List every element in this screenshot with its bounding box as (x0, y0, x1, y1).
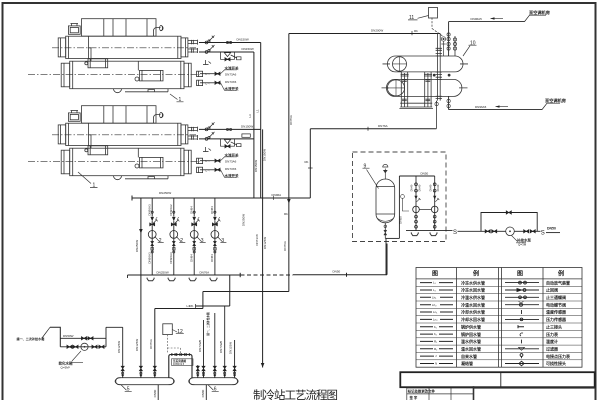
softened water pump (81, 343, 88, 350)
chiller unit 2 (copy shifted down) (28, 106, 203, 180)
svg-text:5: 5 (127, 387, 130, 393)
pump P1 label 2 (155, 237, 164, 243)
arrow on riser x141 (139, 229, 143, 234)
svg-text:N: N (435, 362, 437, 366)
drop D6e (234, 340, 236, 378)
bypass valve (506, 211, 511, 214)
bypass valves (172, 353, 190, 356)
svg-text:DN50: DN50 (421, 172, 429, 176)
svg-text:DN76A: DN76A (378, 124, 388, 128)
collector 6 bottom stub (205, 385, 207, 400)
label 5 (121, 385, 132, 393)
svg-text:DN73X8: DN73X8 (255, 234, 259, 246)
legend right texts (546, 279, 570, 366)
wire riser x310 (309, 129, 311, 198)
valve+thermometer CH1 pipe B (205, 45, 241, 60)
pump P4 (211, 198, 221, 275)
svg-text:DN50: DN50 (547, 226, 556, 230)
svg-text:冷冻水回水管: 冷冻水回水管 (461, 287, 485, 293)
border frame top (2, 2, 596, 4)
makeup pump column B (431, 176, 439, 231)
drop D6c with riser label (214, 313, 216, 378)
svg-text:止三接头: 止三接头 (546, 323, 562, 329)
chiller unit 1 (28, 19, 203, 93)
svg-text:止三通蝶阀: 止三通蝶阀 (546, 294, 566, 300)
drop D6a (197, 365, 199, 378)
svg-text:L₁: L₁ (433, 281, 436, 285)
wire y291 run (203, 291, 289, 293)
svg-text:DN250W: DN250W (242, 214, 246, 226)
legend left texts (460, 279, 485, 366)
svg-text:冷却水回水管: 冷却水回水管 (461, 316, 485, 322)
svg-text:DN73X6: DN73X6 (225, 80, 237, 84)
valve MU2 (492, 230, 497, 233)
svg-text:DN150W: DN150W (263, 149, 267, 161)
cross link between makeup pumps (419, 208, 431, 210)
svg-text:冷温水供水管: 冷温水供水管 (461, 294, 485, 300)
svg-text:至空调机房: 至空调机房 (529, 9, 550, 16)
svg-text:L1: L1 (255, 109, 259, 113)
differential bypass label box (172, 359, 194, 366)
svg-text:例: 例 (473, 270, 479, 278)
svg-text:2: 2 (180, 238, 183, 244)
valve+thermometer CH2 pipe B (205, 132, 250, 147)
svg-text:L→: L→ (206, 168, 211, 172)
svg-text:DN84: DN84 (210, 206, 214, 214)
svg-text:1: 1 (179, 97, 182, 103)
drop D6d (224, 306, 226, 378)
wire chilled return from HX (310, 128, 436, 130)
pressure控制 box 12 (163, 324, 184, 335)
internal pipe drop left (89, 36, 92, 61)
oil cooler cylinder A (88, 59, 108, 68)
wire right riser join (106, 327, 123, 347)
svg-text:DN96A3: DN96A3 (147, 252, 151, 264)
wire tank drain jog (385, 237, 399, 239)
HX lower riser to return flag (448, 96, 450, 109)
svg-text:3: 3 (221, 238, 224, 244)
svg-text:自动放气装置: 自动放气装置 (546, 279, 570, 285)
svg-text:水流开关: 水流开关 (224, 173, 239, 178)
drop D5a (122, 327, 124, 377)
bottom drain bulge (114, 89, 122, 93)
wire riser x141 to collector (140, 198, 142, 378)
svg-text:电动蝶节阀: 电动蝶节阀 (546, 301, 566, 307)
label 6 (208, 385, 219, 393)
svg-text:DN76A: DN76A (200, 270, 210, 274)
wire long riser x289 (288, 34, 290, 292)
expansion tank 9 (376, 179, 395, 223)
svg-text:DN40: DN40 (410, 184, 414, 191)
svg-text:6: 6 (214, 387, 217, 393)
wire suction header solid (128, 274, 241, 276)
CH1 evaporator outlet stub D (200, 81, 215, 85)
svg-text:温水回水管: 温水回水管 (461, 346, 481, 352)
svg-text:Ln₁: Ln₁ (433, 310, 437, 314)
svg-text:Rb: Rb (414, 29, 418, 33)
svg-text:例: 例 (558, 270, 564, 278)
CH1 evaporator outlet stub C (200, 72, 215, 76)
svg-text:接一、二次补给水箱: 接一、二次补给水箱 (206, 312, 210, 337)
wire long riser to collector 6 (262, 129, 264, 367)
dashed control lines from box 12 (168, 335, 181, 355)
control box 11 (408, 8, 438, 22)
valve MU3 (524, 230, 529, 233)
svg-text:图: 图 (432, 270, 438, 278)
valve on bypass CH1 (225, 58, 230, 61)
svg-text:DN76A: DN76A (149, 339, 153, 349)
wire tank feed riser (386, 244, 388, 275)
flexible joint U1 (147, 278, 154, 281)
wire CH1 condenser supply pipe (199, 42, 261, 44)
condenser left cap (58, 38, 65, 57)
drop D6b (203, 320, 205, 378)
wire drop x203 (202, 292, 204, 309)
svg-text:制冷站工艺流程图: 制冷站工艺流程图 (253, 388, 337, 400)
svg-text:DN84: DN84 (210, 254, 214, 262)
water collector 6 (189, 378, 239, 385)
svg-text:DN96A2: DN96A2 (169, 204, 173, 216)
svg-text:DN50X2.5: DN50X2.5 (173, 363, 185, 366)
border frame left (2, 2, 4, 400)
valve MU1 (485, 230, 490, 233)
right condenser nozzles (188, 40, 198, 45)
label 软化水箱 (71, 351, 83, 362)
svg-text:DN84: DN84 (189, 254, 193, 262)
svg-text:L→: L→ (206, 81, 211, 85)
HX lower shell (386, 79, 462, 96)
pump P2 label 2 (176, 237, 185, 243)
svg-text:自来水管: 自来水管 (461, 353, 477, 359)
condenser right cap (181, 38, 188, 57)
supply destination flag (449, 15, 546, 21)
svg-text:DN50W: DN50W (63, 334, 74, 338)
wire softened water lower branch (60, 346, 106, 348)
svg-text:L→: L→ (206, 159, 211, 163)
HX upper shell (387, 56, 463, 72)
svg-text:DN125W: DN125W (117, 341, 121, 353)
svg-text:DN40: DN40 (428, 184, 432, 191)
motorized valve on HX riser (441, 37, 445, 56)
svg-text:DN150W: DN150W (241, 124, 253, 128)
flow switch valve C2 (215, 159, 220, 162)
HX center bottom drop (435, 101, 437, 129)
valve+thermometer CH1 pipe A (205, 36, 232, 44)
svg-text:1: 1 (93, 183, 96, 189)
wire tank feed run (293, 274, 387, 276)
wire cooling water supply header to HX (289, 33, 440, 35)
makeup pump column A (413, 176, 421, 231)
vent bracket CH2 (203, 147, 211, 152)
wire CH1 condenser return pipe (199, 51, 254, 53)
valve MU4 (530, 230, 535, 233)
svg-text:R₁: R₁ (434, 340, 437, 344)
svg-text:冷温水回水管: 冷温水回水管 (461, 301, 485, 307)
svg-text:DN73W8: DN73W8 (219, 341, 223, 354)
svg-text:冷冻水供水管: 冷冻水供水管 (461, 279, 485, 285)
label 9 with leader (363, 163, 379, 188)
dashed control line from box 11 (432, 18, 443, 37)
chiller 1 ref label 1 (170, 94, 184, 103)
tank bottom fittings (384, 223, 387, 239)
svg-text:DN80: DN80 (201, 389, 205, 397)
svg-text:DN73W8: DN73W8 (198, 340, 202, 353)
valve SW1 (81, 337, 86, 340)
svg-text:水流开关: 水流开关 (224, 152, 239, 157)
legend line letter tags (431, 281, 440, 366)
svg-text:水流开关: 水流开关 (224, 86, 239, 91)
wire CH1 cond supply riser down (260, 43, 262, 199)
svg-text:温度计: 温度计 (546, 338, 558, 344)
svg-text:DN150W: DN150W (242, 47, 254, 51)
distributor 5 bottom stub (157, 385, 159, 400)
wire makeup top header (399, 175, 434, 177)
legend left line samples (420, 283, 453, 364)
label 补给水泵 (512, 236, 527, 243)
valve SW3 (67, 345, 72, 348)
wire header left end down (127, 275, 129, 278)
bottom piping (125, 89, 168, 92)
svg-text:锅炉回水管: 锅炉回水管 (460, 331, 481, 337)
svg-text:DN125W: DN125W (228, 342, 232, 354)
svg-text:DN96A: DN96A (272, 193, 282, 197)
flow switch valve D2 (215, 168, 220, 171)
svg-text:DN50: DN50 (399, 216, 403, 224)
svg-text:Q=5M³: Q=5M³ (61, 365, 70, 369)
flexible joint under pump A (411, 232, 418, 235)
border frame right (595, 2, 597, 400)
svg-text:DN150W: DN150W (237, 38, 249, 42)
svg-text:接一、二次补给水箱: 接一、二次补给水箱 (17, 336, 45, 341)
arrow bottom of riser x263 (261, 363, 265, 368)
drop D5c valves (153, 366, 156, 377)
pump P1 (148, 198, 158, 275)
svg-text:b₁: b₁ (434, 325, 437, 329)
wire drop x230 (229, 275, 231, 306)
pump P4 label 3 (217, 237, 226, 243)
svg-text:温水供水管: 温水供水管 (461, 338, 481, 344)
valve SW2 (88, 337, 93, 340)
svg-text:DN250W: DN250W (159, 191, 171, 195)
pressure gauge (401, 195, 409, 211)
svg-text:DN73A6: DN73A6 (225, 72, 237, 76)
svg-text:标记处数更改文件: 标记处数更改文件 (407, 389, 436, 394)
HX support legs (401, 72, 431, 107)
svg-text:止回阀: 止回阀 (546, 287, 558, 293)
svg-text:图: 图 (517, 270, 523, 278)
svg-text:DN250W: DN250W (157, 270, 169, 274)
short riser 455 (454, 36, 456, 56)
pump P3 (190, 198, 200, 275)
vent bracket CH1 (203, 60, 211, 65)
pump P3 label 3 (197, 237, 206, 243)
revision table (407, 386, 595, 400)
wire CH2 condenser supply pipe (199, 128, 261, 130)
wire riser x399 (398, 176, 400, 238)
svg-text:DN40: DN40 (418, 184, 422, 191)
bypass pipe between collectors (169, 355, 192, 378)
wire pump discharge header (132, 197, 310, 199)
chiller 2 ref label 1 (78, 172, 98, 189)
makeup feed pump (506, 227, 515, 236)
valve SW5 (92, 345, 97, 348)
vent box top-left (68, 26, 80, 34)
wire makeup bottom header (406, 230, 453, 232)
svg-text:DN40: DN40 (436, 184, 440, 191)
water distributor 5 (115, 378, 174, 385)
title block band (400, 372, 594, 387)
valve SW4 (73, 345, 78, 348)
label 10 with leader (463, 40, 477, 56)
gate valves on riser 448 (447, 33, 450, 50)
flow switch valve C (215, 72, 220, 75)
svg-text:DN200W: DN200W (371, 29, 383, 33)
valve on bypass CH2 (225, 145, 230, 148)
evaporator left cap (61, 63, 69, 87)
arrow on long riser x289 (287, 199, 291, 204)
svg-text:10: 10 (470, 40, 476, 46)
wire drop x155 to collector (154, 309, 156, 378)
wire L4 run (155, 308, 203, 310)
return destination flag (449, 103, 560, 109)
svg-text:DN96A5: DN96A5 (471, 17, 483, 21)
leader from text (42, 327, 50, 338)
svg-text:2: 2 (159, 238, 162, 244)
svg-text:Lh₁: Lh₁ (432, 295, 436, 299)
flexible joint U2 (168, 278, 175, 281)
svg-text:L→: L→ (206, 72, 211, 76)
svg-text:签 字: 签 字 (409, 395, 418, 400)
svg-text:DN150W: DN150W (254, 160, 258, 172)
flexible joint under pump B (430, 232, 437, 235)
svg-text:水流开关: 水流开关 (224, 65, 239, 70)
evaporator centerline (28, 73, 200, 75)
svg-text:S: S (541, 230, 545, 236)
drop D5b valves (139, 366, 142, 377)
legend right symbols (505, 281, 539, 366)
svg-text:DN84: DN84 (189, 206, 193, 214)
svg-text:至空调机房: 至空调机房 (545, 97, 566, 104)
svg-text:S: S (453, 230, 457, 236)
svg-text:电接点压力表: 电接点压力表 (546, 353, 570, 359)
svg-text:DN96A3: DN96A3 (169, 252, 173, 264)
svg-text:DN76A: DN76A (289, 115, 293, 125)
flexible joint U3 (189, 278, 196, 281)
svg-text:凝结管: 凝结管 (461, 360, 473, 366)
heat exchanger unit 10 (382, 34, 469, 129)
flexible joint U4 (210, 278, 217, 281)
svg-text:可挠性接头: 可挠性接头 (546, 360, 566, 366)
bypass loop over feed pump (481, 213, 537, 232)
svg-text:DN250W: DN250W (135, 240, 139, 252)
evaporator shell (70, 61, 184, 88)
svg-text:锅炉供水管: 锅炉供水管 (460, 323, 481, 329)
svg-text:12: 12 (177, 329, 183, 335)
svg-text:DN125W: DN125W (263, 237, 267, 249)
wire softened water upper branch (60, 337, 106, 339)
svg-text:3: 3 (201, 238, 204, 244)
right evaporator nozzles (197, 71, 203, 76)
svg-text:DN73X6: DN73X6 (225, 167, 237, 171)
dashed enclosure (makeup water unit) (353, 152, 447, 242)
svg-text:温度传感器: 温度传感器 (546, 309, 567, 315)
wire makeup line to city (458, 230, 486, 232)
svg-text:DN96A5: DN96A5 (475, 105, 487, 109)
pump P2 (170, 198, 180, 275)
elbow right (154, 26, 164, 37)
flow switch valve D (215, 81, 220, 84)
svg-text:DN96A3: DN96A3 (147, 204, 151, 216)
svg-text:DN76A: DN76A (283, 241, 287, 251)
compressor box (82, 19, 157, 37)
label 水流开关 C (221, 70, 238, 74)
svg-text:DN50: DN50 (333, 269, 341, 273)
svg-text:Rb: Rb (305, 160, 309, 164)
wire CH1 cond return riser down (253, 52, 255, 198)
CH2 evaporator outlet stub C (200, 159, 215, 163)
svg-text:DN80: DN80 (153, 389, 157, 397)
svg-text:压力传感器: 压力传感器 (546, 316, 567, 322)
svg-text:L3: L3 (248, 114, 252, 118)
svg-text:11: 11 (409, 15, 414, 21)
wire y306 run (196, 305, 230, 307)
valve SW6 (99, 345, 104, 348)
evaporator right cap (184, 63, 191, 87)
svg-text:压力表: 压力表 (546, 331, 558, 337)
svg-text:Rb: Rb (190, 304, 194, 308)
wire tank outlet down (385, 238, 387, 274)
svg-text:Rb: Rb (284, 212, 288, 216)
valve+thermometer CH2 pipe A (205, 122, 232, 130)
label 水流开关 C2 (221, 157, 238, 161)
HX center connector pipes (437, 34, 440, 101)
tank top air vent (383, 164, 388, 179)
condenser shell (66, 36, 181, 58)
wire makeup inlet top (50, 327, 60, 347)
svg-text:9: 9 (364, 163, 367, 169)
condenser centerline (52, 47, 196, 49)
wire suction header dashed (241, 274, 294, 276)
CH2 evaporator outlet stub D2 (200, 168, 215, 172)
svg-text:冷却水供水管: 冷却水供水管 (461, 309, 485, 315)
wire CH2 condenser return pipe (199, 138, 254, 140)
legend table (416, 268, 582, 368)
svg-text:Q=3M: Q=3M (518, 243, 527, 247)
svg-text:DN125W: DN125W (135, 339, 139, 351)
motor cylinder B (140, 70, 164, 81)
HX riser to supply flag (x448.6) (448, 22, 450, 56)
svg-text:DN73A6: DN73A6 (225, 159, 237, 163)
svg-text:过滤器: 过滤器 (546, 346, 559, 352)
